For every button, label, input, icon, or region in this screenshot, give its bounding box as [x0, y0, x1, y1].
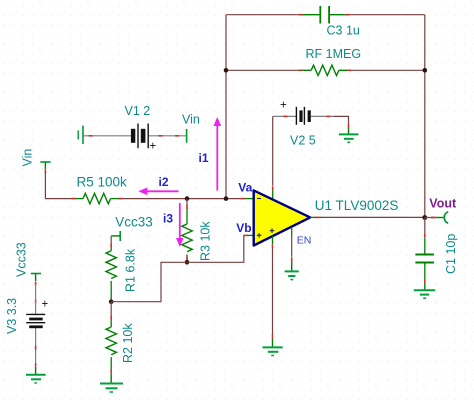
- ground (R2): [100, 374, 123, 392]
- pin: op-amp -in lead: [244, 198, 254, 200]
- wire: V2 to op-amp V+ pin: [272, 116, 274, 185]
- node: Va / feedback: [224, 196, 229, 201]
- svg-text:R3 10k: R3 10k: [199, 221, 213, 261]
- svg-text:Va: Va: [238, 181, 252, 195]
- svg-text:Vb: Vb: [236, 221, 251, 235]
- resistor R3: [182, 199, 213, 261]
- wire: output to node: [322, 216, 425, 218]
- svg-text:i2: i2: [159, 175, 169, 189]
- svg-text:Vcc33: Vcc33: [115, 215, 153, 230]
- op-amp U1: [254, 190, 399, 245]
- pin: op-amp EN lead: [292, 227, 312, 261]
- capacitor C3: [299, 6, 360, 38]
- terminal Vout: [425, 196, 457, 223]
- svg-text:C1 10p: C1 10p: [444, 234, 458, 274]
- current arrow i3: [163, 203, 184, 247]
- svg-text:RF 1MEG: RF 1MEG: [306, 47, 362, 61]
- current arrow i2: [138, 175, 178, 195]
- svg-text:V1 2: V1 2: [125, 104, 151, 118]
- svg-text:Vout: Vout: [429, 196, 457, 210]
- wire: feedback loop top: [226, 15, 425, 218]
- resistor R2: [106, 302, 135, 374]
- pin: op-amp V- lead and wire to ground: [272, 236, 274, 338]
- node: RF left junction: [224, 68, 229, 73]
- terminal Vin (left): [21, 149, 51, 174]
- battery V3: [5, 242, 49, 366]
- node: R1/R2 junction: [109, 299, 114, 304]
- node: output: [422, 215, 427, 220]
- wire: Vin to R5 to Va node: [45, 172, 243, 199]
- svg-text:U1 TLV9002S: U1 TLV9002S: [315, 198, 399, 213]
- ground (EN): [285, 261, 299, 279]
- svg-text:Vin: Vin: [21, 149, 35, 167]
- svg-text:i3: i3: [163, 212, 173, 226]
- battery V1: [78, 104, 200, 153]
- svg-text:R5 100k: R5 100k: [77, 175, 128, 190]
- ground (C1): [414, 284, 435, 298]
- node: RF right junction: [423, 68, 428, 73]
- resistor R1: [106, 236, 137, 302]
- terminal Vcc33 (R1 top): [111, 215, 153, 242]
- svg-text:Vin: Vin: [182, 112, 200, 126]
- node: R3 bottom / Vb: [185, 260, 190, 265]
- wire: R1R2 junction to Vb net: [111, 262, 187, 301]
- pin: op-amp V+ lead: [272, 190, 274, 199]
- node: Va / R3 top: [185, 196, 190, 201]
- battery V2: [273, 100, 349, 148]
- ground (V2): [339, 128, 358, 143]
- svg-text:+: +: [150, 141, 157, 153]
- capacitor C1: [415, 218, 457, 284]
- svg-text:C3 1u: C3 1u: [327, 24, 360, 38]
- wire: Vb net: [187, 235, 245, 262]
- pin: op-amp output lead: [310, 216, 321, 218]
- ground (op-amp V-): [263, 339, 283, 356]
- svg-text:i1: i1: [199, 151, 209, 165]
- pin: op-amp +in lead: [247, 234, 254, 236]
- svg-text:V3 3.3: V3 3.3: [5, 298, 19, 334]
- resistor RF: [298, 47, 361, 76]
- svg-text:R1 6.8k: R1 6.8k: [123, 248, 137, 292]
- svg-text:Vcc33: Vcc33: [14, 242, 28, 277]
- svg-text:R2 10k: R2 10k: [121, 323, 135, 363]
- svg-text:EN: EN: [297, 234, 312, 246]
- svg-text:+: +: [280, 100, 287, 112]
- svg-text:+: +: [42, 299, 49, 311]
- ground (V3): [26, 367, 46, 383]
- resistor R5: [72, 175, 127, 204]
- current arrow i1: [199, 117, 222, 191]
- svg-text:V2 5: V2 5: [290, 134, 316, 148]
